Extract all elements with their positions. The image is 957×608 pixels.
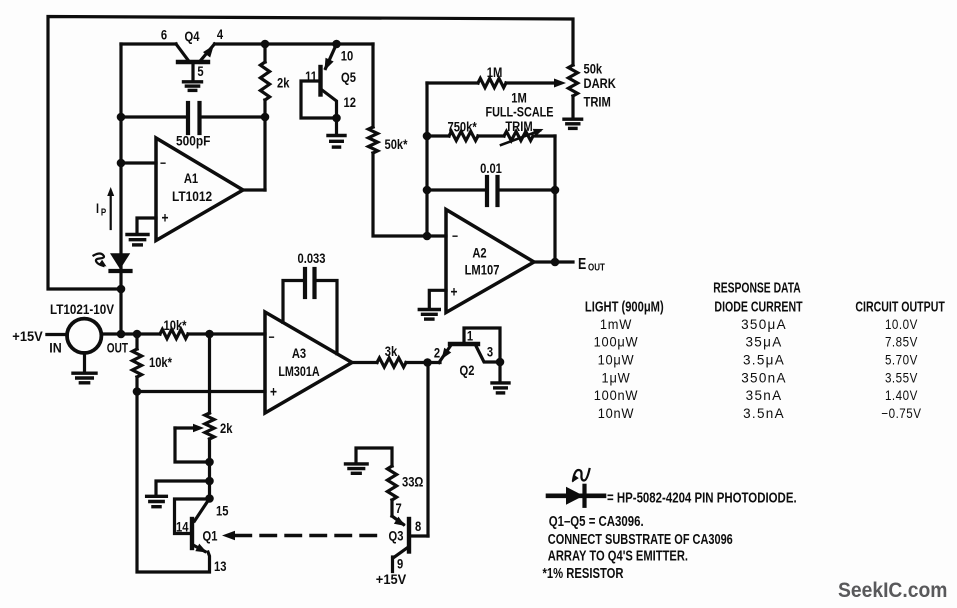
svg-text:10k*: 10k* [163, 318, 186, 333]
svg-text:6: 6 [161, 27, 167, 42]
svg-text:5: 5 [197, 64, 203, 79]
svg-text:2k: 2k [220, 421, 233, 436]
svg-text:+: + [161, 209, 168, 226]
svg-text:+: + [450, 283, 457, 300]
svg-text:7.85V: 7.85V [885, 335, 918, 350]
svg-text:50k: 50k [584, 61, 604, 76]
svg-text:3.55V: 3.55V [885, 371, 918, 386]
svg-text:Q1–Q5 = CA3096.: Q1–Q5 = CA3096. [549, 512, 644, 529]
svg-text:I: I [96, 201, 99, 216]
svg-text:350nA: 350nA [741, 370, 787, 385]
svg-text:2: 2 [434, 345, 440, 360]
svg-text:+: + [270, 383, 277, 400]
svg-text:LIGHT (900μM): LIGHT (900μM) [585, 298, 664, 315]
svg-text:Q2: Q2 [460, 363, 475, 378]
svg-text:750k*: 750k* [448, 119, 477, 134]
svg-text:14: 14 [176, 519, 188, 534]
svg-text:1M: 1M [487, 65, 503, 80]
svg-text:100μW: 100μW [594, 334, 639, 349]
svg-text:LT1021-10V: LT1021-10V [50, 301, 114, 317]
svg-text:+15V: +15V [376, 571, 406, 587]
svg-text:DIODE CURRENT: DIODE CURRENT [714, 298, 802, 315]
svg-text:0.033: 0.033 [298, 251, 326, 266]
svg-text:A2: A2 [472, 245, 486, 260]
svg-text:ARRAY TO Q4'S EMITTER.: ARRAY TO Q4'S EMITTER. [548, 547, 688, 564]
svg-text:50k*: 50k* [385, 137, 408, 152]
svg-text:35nA: 35nA [746, 388, 783, 403]
svg-text:100nW: 100nW [594, 388, 638, 403]
svg-text:13: 13 [214, 559, 226, 574]
svg-text:Q3: Q3 [389, 528, 404, 543]
svg-text:1μW: 1μW [602, 370, 631, 385]
svg-text:FULL-SCALE: FULL-SCALE [485, 104, 553, 120]
svg-text:P: P [101, 207, 106, 218]
svg-text:11: 11 [305, 69, 317, 84]
svg-text:IN: IN [49, 340, 61, 356]
svg-text:TRIM: TRIM [584, 94, 611, 109]
svg-text:CIRCUIT OUTPUT: CIRCUIT OUTPUT [855, 298, 944, 315]
svg-text:Q4: Q4 [185, 29, 200, 44]
svg-text:10: 10 [341, 48, 353, 63]
svg-text:15: 15 [216, 503, 228, 518]
svg-text:1mW: 1mW [600, 317, 632, 332]
svg-text:TRIM: TRIM [505, 119, 532, 134]
svg-text:3.5μA: 3.5μA [743, 353, 785, 368]
svg-text:4: 4 [217, 27, 223, 42]
svg-text:DARK: DARK [584, 76, 617, 91]
svg-text:2k: 2k [277, 75, 290, 90]
svg-text:Q1: Q1 [203, 528, 218, 543]
svg-text:10.0V: 10.0V [885, 317, 918, 332]
svg-text:E: E [578, 255, 586, 273]
svg-text:33Ω: 33Ω [402, 474, 423, 489]
svg-text:12: 12 [344, 95, 356, 110]
svg-text:350μA: 350μA [741, 317, 787, 332]
svg-text:A1: A1 [184, 171, 198, 186]
svg-text:OUT: OUT [588, 262, 605, 273]
svg-text:LM107: LM107 [465, 262, 500, 277]
svg-text:+15V: +15V [12, 329, 42, 345]
svg-text:7: 7 [396, 501, 402, 516]
svg-text:LT1012: LT1012 [172, 188, 212, 204]
svg-text:5.70V: 5.70V [885, 353, 918, 368]
svg-text:10μW: 10μW [598, 352, 635, 367]
svg-text:RESPONSE DATA: RESPONSE DATA [713, 278, 801, 295]
svg-text:1: 1 [467, 328, 473, 343]
svg-text:10k*: 10k* [149, 355, 172, 370]
svg-text:Q5: Q5 [341, 70, 356, 85]
svg-text:= HP-5082-4204 PIN PHOTODIODE.: = HP-5082-4204 PIN PHOTODIODE. [607, 489, 797, 506]
svg-text:35μA: 35μA [746, 335, 783, 350]
svg-text:SeekIC.com: SeekIC.com [838, 580, 947, 603]
svg-text:−: − [452, 229, 458, 243]
svg-text:−: − [160, 156, 166, 170]
svg-text:CONNECT SUBSTRATE OF CA3096: CONNECT SUBSTRATE OF CA3096 [548, 530, 733, 547]
svg-text:LM301A: LM301A [278, 364, 319, 380]
svg-text:9: 9 [397, 556, 403, 571]
svg-text:1.40V: 1.40V [885, 388, 918, 403]
svg-text:OUT: OUT [107, 340, 129, 356]
svg-text:500pF: 500pF [176, 133, 210, 149]
svg-text:3.5nA: 3.5nA [743, 406, 785, 421]
svg-text:0.01: 0.01 [480, 161, 502, 176]
svg-text:3k: 3k [385, 344, 398, 359]
svg-text:8: 8 [415, 519, 421, 534]
svg-text:*1% RESISTOR: *1% RESISTOR [543, 565, 624, 582]
svg-text:−0.75V: −0.75V [881, 406, 921, 421]
svg-text:10nW: 10nW [598, 406, 635, 421]
svg-text:−: − [268, 330, 274, 344]
svg-text:A3: A3 [292, 346, 306, 361]
svg-text:3: 3 [487, 344, 493, 359]
